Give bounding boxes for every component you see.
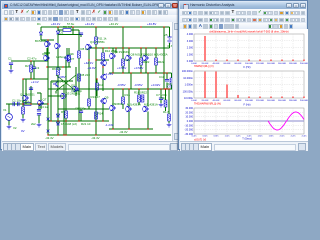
wire x115 top	[115, 48, 117, 53]
svg-text:100.000m: 100.000m	[182, 70, 193, 73]
svg-text:10.000: 10.000	[185, 116, 193, 119]
svg-text:0.000: 0.000	[187, 120, 194, 123]
svg-text:+0.58V: +0.58V	[134, 66, 143, 70]
transistor Q6b	[100, 74, 105, 80]
svg-text:100.00K: 100.00K	[245, 100, 254, 102]
svg-text:1.26mA: 1.26mA	[56, 55, 66, 59]
plot 3 zero axis	[194, 120, 304, 122]
wire Q11 c	[128, 48, 130, 55]
svg-text:Q8 MJL4302A: Q8 MJL4302A	[131, 53, 150, 57]
ground RL	[167, 123, 172, 127]
wire R18 bottom	[138, 102, 140, 105]
wire Q12 e	[145, 61, 147, 73]
transistor Q16	[46, 41, 51, 47]
svg-text:140.00K: 140.00K	[267, 63, 276, 65]
plot 3 sine wave	[268, 112, 304, 130]
wire Q7 link	[37, 92, 41, 94]
junction fb-input	[47, 103, 48, 104]
svg-text:60.00K: 60.00K	[224, 63, 231, 65]
svg-text:Q5: Q5	[71, 84, 75, 88]
diode D3	[56, 114, 60, 117]
junction rail47 x140	[140, 47, 141, 48]
wire Q1 collector	[25, 79, 27, 95]
wire Q10 e	[112, 59, 114, 73]
wire C4 top	[38, 104, 40, 109]
svg-text:Q6 2SB649: Q6 2SB649	[114, 50, 129, 54]
svg-text:4.000: 4.000	[187, 33, 194, 36]
junction rail72 x122	[122, 72, 123, 73]
plot 2 spike 2	[215, 72, 217, 99]
wire Q14 e	[128, 112, 130, 129]
svg-text:R6 22k: R6 22k	[52, 67, 62, 71]
svg-text:+0.58V: +0.58V	[117, 66, 126, 70]
svg-text:100.00K: 100.00K	[245, 63, 254, 65]
plot 1 horizontal grid	[194, 41, 304, 55]
svg-text:30.000: 30.000	[185, 107, 193, 110]
resistor R8	[78, 51, 81, 58]
wire Q2 emitter	[57, 49, 59, 68]
marker X2	[47, 130, 50, 133]
plot 2 frame	[194, 71, 304, 98]
wire feedback vertical	[47, 40, 49, 135]
svg-text:Q2b: Q2b	[69, 52, 75, 56]
wire x147 mid	[147, 73, 149, 89]
svg-text:R2: R2	[25, 64, 29, 68]
svg-text:R8 1k: R8 1k	[81, 47, 89, 51]
ground C6	[9, 69, 14, 73]
transistor Q12 MJL4302	[144, 55, 149, 61]
svg-text:1.000: 1.000	[187, 53, 194, 56]
wire RL bottom	[168, 121, 170, 123]
svg-text:1.2m: 1.2m	[236, 136, 241, 138]
wire x78 lower	[78, 58, 80, 121]
junction rail128 x147	[147, 128, 148, 129]
svg-text:40.00K: 40.00K	[213, 63, 220, 65]
junction input x38	[38, 103, 39, 104]
junction bottom x57	[57, 134, 58, 135]
wire x65	[65, 60, 67, 111]
plot 1 harmonic ticks	[216, 60, 304, 61]
wire R9 bottom	[65, 118, 67, 135]
plot 1 frame	[194, 34, 304, 61]
svg-text:200.00K: 200.00K	[300, 63, 308, 65]
svg-text:-0.55V: -0.55V	[117, 83, 126, 87]
junction rail47 x95	[95, 47, 96, 48]
wire R18 top	[138, 89, 140, 95]
wire R12 top	[102, 48, 104, 53]
svg-text:10.000m: 10.000m	[183, 77, 193, 80]
transistor Q4	[87, 44, 92, 50]
junction out rail x166	[166, 88, 167, 89]
junction top rail x57	[57, 26, 58, 27]
junction rail72 x112	[112, 72, 113, 73]
wire Q6b e	[102, 80, 104, 91]
battery V5	[167, 37, 171, 43]
svg-text:+43.1V: +43.1V	[51, 22, 60, 26]
capacitor C9	[75, 89, 79, 91]
wire Q14 c	[128, 89, 130, 106]
junction out rail x138	[138, 88, 139, 89]
junction bottom x95	[95, 134, 96, 135]
resistor R12	[102, 53, 105, 60]
wire R13 bottom	[88, 106, 90, 109]
resistor R3	[63, 29, 71, 32]
plot 2 spike 1	[204, 72, 206, 99]
junction out rail x164.5	[165, 88, 166, 89]
wire C3 stem	[30, 86, 32, 104]
resistor R24	[164, 100, 167, 107]
wire R3 left	[58, 29, 63, 31]
svg-text:80.00K: 80.00K	[235, 100, 242, 102]
wire R10 top	[96, 79, 98, 83]
resistor R9	[65, 111, 68, 118]
svg-text:60.00K: 60.00K	[224, 100, 231, 102]
wire bottom right rail	[109, 128, 153, 130]
schematic canvas	[2, 22, 172, 141]
capacitor C10	[165, 80, 169, 82]
wire Q6 c	[102, 59, 104, 61]
junction out rail x163	[163, 88, 164, 89]
plot 1 fundamental spike	[204, 36, 206, 61]
wire top rail stub	[41, 26, 54, 28]
svg-text:120.00K: 120.00K	[256, 63, 265, 65]
svg-text:Q2a: Q2a	[42, 52, 48, 56]
resistor R6	[57, 68, 60, 75]
transistor Q8	[74, 86, 79, 92]
wire R15 bottom	[122, 66, 124, 73]
wire inner vertical	[50, 81, 52, 121]
diode D2	[56, 31, 60, 34]
wire Q15 c	[147, 89, 149, 106]
svg-text:-42.9V: -42.9V	[87, 66, 96, 70]
junction bottom x65	[65, 134, 66, 135]
wire R7 bottom	[68, 62, 70, 67]
svg-text:Q4 2N5551: Q4 2N5551	[90, 40, 105, 44]
svg-text:Q1 2N5551: Q1 2N5551	[20, 93, 35, 97]
capacitor C3	[29, 88, 33, 90]
junction out rail x128	[128, 88, 129, 89]
wire Q7 bottom	[40, 106, 42, 109]
svg-text:C2 47u: C2 47u	[27, 57, 37, 61]
resistor R16	[122, 97, 125, 104]
wire Q5 down	[63, 99, 65, 135]
plot 3 frame	[194, 108, 304, 134]
wire R16 bottom	[122, 104, 124, 109]
junction top rail x72	[72, 26, 73, 27]
wire C10 bottom	[166, 83, 168, 90]
plot 2 spike 3	[226, 85, 228, 99]
wire R19 bottom	[155, 65, 157, 73]
svg-text:160.00K: 160.00K	[278, 100, 287, 102]
capacitor C2	[18, 102, 20, 106]
wire D1 bottom	[40, 35, 42, 40]
svg-text:200.00K: 200.00K	[300, 100, 308, 102]
wire ltp cross 1	[56, 75, 76, 91]
svg-text:2.0m: 2.0m	[280, 136, 285, 138]
svg-text:1.0m: 1.0m	[225, 136, 230, 138]
wire Q15 e	[147, 112, 149, 129]
svg-text:T (Secs): T (Secs)	[242, 137, 252, 140]
wire mid-left line	[51, 80, 73, 82]
wire right vertical	[163, 27, 165, 89]
wire Q13 e	[112, 111, 114, 129]
svg-text:-0.55V: -0.55V	[134, 83, 143, 87]
wire Q2a c	[46, 48, 48, 56]
vertical scrollbar	[172, 22, 180, 141]
transistor Q14 MJL4281	[127, 106, 132, 112]
svg-text:1.6m: 1.6m	[258, 136, 263, 138]
plot 2 small ticks	[249, 97, 304, 98]
junction rail120 x50	[50, 120, 51, 121]
svg-text:-20.000: -20.000	[185, 129, 194, 132]
wire zobel rail ext	[164, 72, 172, 74]
wire vas line	[96, 59, 109, 61]
svg-text:180.00K: 180.00K	[289, 100, 298, 102]
wire left mid line	[23, 78, 48, 80]
wire Q10 c	[112, 48, 114, 53]
wire output rail	[48, 88, 177, 90]
svg-text:1N4148 (x2): 1N4148 (x2)	[61, 122, 77, 126]
junction rail120 x78	[78, 120, 79, 121]
svg-text:R15: R15	[125, 58, 131, 62]
wire C6 stem	[10, 65, 12, 69]
wire ltp link	[44, 52, 50, 54]
resistor R22	[170, 78, 173, 85]
svg-text:C9 100p: C9 100p	[71, 89, 82, 93]
wire V5 top	[169, 27, 171, 37]
svg-text:C1: C1	[8, 57, 12, 61]
junction bottom x63	[63, 134, 64, 135]
resistor R7	[68, 55, 71, 62]
wire Q11 e	[128, 61, 130, 73]
junction rail120 x95	[95, 120, 96, 121]
wire Q12 c	[145, 48, 147, 55]
wire lower line	[58, 108, 109, 110]
wire cross top right	[75, 67, 77, 75]
svg-text:-10.000: -10.000	[185, 124, 194, 127]
wire R2 top	[22, 79, 24, 107]
svg-text:C4 1u: C4 1u	[40, 105, 48, 109]
wire fb top link	[48, 39, 54, 41]
resistor R4	[30, 65, 33, 72]
svg-text:-43.3V: -43.3V	[119, 130, 128, 134]
transistor Q2a	[45, 55, 50, 61]
svg-text:-43.4V: -43.4V	[91, 136, 100, 140]
svg-text:2.000: 2.000	[187, 47, 194, 50]
transistor Q5	[62, 93, 67, 99]
wire RL top	[168, 89, 170, 114]
wire Q5 up	[63, 85, 65, 93]
wire bias rail	[109, 72, 164, 74]
capacitor C1	[13, 102, 15, 106]
transistor Q1	[24, 95, 29, 101]
svg-text:Q2 2N5401: Q2 2N5401	[51, 80, 66, 84]
wire R4 bottom	[30, 72, 32, 79]
capacitor C4b	[37, 114, 41, 116]
capacitor C2b	[32, 67, 36, 69]
junction rail72 x147	[147, 72, 148, 73]
wire C5 top	[80, 109, 82, 111]
wire C7 top	[160, 89, 162, 98]
plot 3 horizontal grid	[194, 112, 304, 129]
svg-text:-43.4V: -43.4V	[45, 136, 54, 140]
wire -43V bottom rail	[48, 134, 171, 136]
wire R11 top	[95, 27, 97, 37]
wire x95 down	[95, 60, 97, 135]
svg-text:+43.2V: +43.2V	[109, 22, 118, 26]
svg-text:-1.24V: -1.24V	[105, 123, 114, 127]
wire R10 bottom	[96, 90, 98, 96]
svg-text:R16: R16	[125, 93, 131, 97]
junction rail120 x65	[65, 120, 66, 121]
wire Q6 e	[102, 66, 104, 67]
junction rail120 x102	[102, 120, 103, 121]
svg-text:D2: D2	[60, 31, 64, 35]
junction out rail x147	[147, 88, 148, 89]
svg-text:R9: R9	[61, 110, 65, 114]
ground C7	[159, 103, 164, 107]
svg-text:2.2m: 2.2m	[291, 136, 296, 138]
wire x57 lower	[57, 109, 59, 135]
transistor Q7	[39, 100, 44, 106]
svg-text:Q9: Q9	[105, 96, 109, 100]
svg-text:+43.8V: +43.8V	[147, 22, 156, 26]
svg-text:100.000u: 100.000u	[183, 90, 194, 93]
transistor Q10 2SB649	[111, 53, 116, 59]
junction out rail x112	[112, 88, 113, 89]
wire C7 bottom	[160, 100, 162, 103]
capacitor C7	[159, 98, 163, 100]
capacitor C5	[79, 111, 83, 113]
wire V1 bottom	[8, 120, 10, 125]
junction input x22	[22, 103, 23, 104]
svg-text:R7: R7	[71, 57, 75, 61]
wire Q4 emitter	[88, 50, 90, 60]
transistor Q9	[100, 98, 105, 104]
wire cross bottom left	[55, 91, 57, 93]
svg-text:1.8m: 1.8m	[269, 136, 274, 138]
junction out rail x122	[122, 88, 123, 89]
svg-text:R24: R24	[161, 96, 167, 100]
wire Q8 up	[75, 73, 77, 86]
source V1	[6, 114, 13, 121]
diode D1	[39, 32, 43, 35]
resistor R10	[96, 83, 99, 90]
wire Q13 c	[112, 89, 114, 105]
svg-text:RL 8: RL 8	[163, 110, 169, 114]
svg-text:chk5distazena_1k-th-rl mod(AVk: chk5distazena_1k-th-rl mod(AVk) stavek f…	[209, 30, 289, 34]
transistor Q2b	[64, 55, 69, 61]
ground C4	[37, 123, 42, 127]
svg-text:V1: V1	[3, 108, 7, 112]
junction rail72 x166	[166, 72, 167, 73]
capacitor C6	[9, 63, 13, 65]
svg-text:0R22: 0R22	[143, 60, 150, 64]
svg-text:HARM(V(RL)) (V): HARM(V(RL)) (V)	[194, 65, 214, 68]
wire R11 bottom	[95, 44, 97, 60]
junction rail47 x145	[145, 47, 146, 48]
junction top rail x140	[140, 26, 141, 27]
svg-text:0.4m: 0.4m	[192, 136, 197, 138]
junction out rail x160	[160, 88, 161, 89]
svg-text:2k2: 2k2	[31, 122, 36, 126]
wire x122 top	[122, 27, 124, 59]
wire V5 bottom	[169, 43, 171, 48]
junction top rail x163	[163, 26, 164, 27]
svg-text:+0.02V: +0.02V	[151, 83, 160, 87]
svg-text:Q10 MJL4302A: Q10 MJL4302A	[148, 53, 168, 57]
junction rail47 x155	[155, 47, 156, 48]
marker X1	[47, 118, 50, 121]
svg-text:V5: V5	[164, 33, 168, 37]
svg-text:20.000: 20.000	[185, 111, 193, 114]
bottom tab bar	[180, 141, 308, 151]
svg-text:0.6m: 0.6m	[203, 136, 208, 138]
svg-text:R1 1k: R1 1k	[22, 100, 30, 104]
junction rail72 x155	[155, 72, 156, 73]
wire R17 bottom	[140, 65, 142, 73]
wire x130 mid	[130, 73, 132, 89]
ground R2	[21, 118, 26, 122]
bottom tab / scroll bar	[2, 141, 179, 151]
svg-text:THD(HARM(V(RL))) (%): THD(HARM(V(RL))) (%)	[194, 102, 221, 105]
svg-text:R14: R14	[98, 112, 104, 116]
svg-text:C10: C10	[159, 75, 165, 79]
resistor RL	[168, 114, 171, 121]
plot 2 horizontal grid	[194, 78, 304, 92]
wire lower rail	[48, 120, 109, 122]
junction rail47 x115	[115, 47, 116, 48]
junction rail72 x140	[140, 72, 141, 73]
junction rail47 x128	[128, 47, 129, 48]
svg-text:160.00K: 160.00K	[278, 63, 287, 65]
wire ltp cross 2	[56, 75, 76, 91]
resistor R1	[24, 103, 31, 106]
junction fb top	[47, 39, 48, 40]
svg-text:120.00K: 120.00K	[256, 100, 265, 102]
capacitor C4	[37, 110, 41, 112]
svg-text:C3: C3	[36, 66, 40, 70]
transistor Q15 MJL4281	[144, 106, 149, 112]
wire C2b	[33, 61, 35, 67]
wire R3 right	[71, 29, 79, 31]
svg-text:-0.68V: -0.68V	[57, 75, 66, 79]
svg-text:0R22: 0R22	[158, 60, 165, 64]
wire x88 mid	[88, 60, 90, 99]
junction rail128 x128	[128, 128, 129, 129]
svg-text:Q7: Q7	[43, 98, 47, 102]
svg-text:+2.1V: +2.1V	[31, 80, 39, 84]
transistor Q13 2SD669	[111, 105, 116, 111]
wire Q8 down	[75, 92, 77, 96]
wire C5 bot	[80, 113, 82, 121]
junction vas	[88, 59, 89, 60]
wire R16 top	[122, 89, 124, 97]
junction top rail x122	[122, 26, 123, 27]
junction left78	[30, 78, 31, 79]
wire R22 top	[171, 73, 173, 78]
resistor R13	[88, 99, 91, 106]
wire R17 top	[140, 48, 142, 58]
svg-text:2SD669: 2SD669	[112, 102, 123, 106]
svg-text:MJL4281A: MJL4281A	[144, 103, 158, 107]
wire D2 bottom	[57, 34, 59, 43]
wire Q6b c	[102, 67, 104, 74]
wire Q2b c	[66, 48, 68, 56]
junction rail72 x163	[163, 72, 164, 73]
resistor R17	[140, 58, 143, 65]
svg-text:R10: R10	[98, 83, 104, 87]
